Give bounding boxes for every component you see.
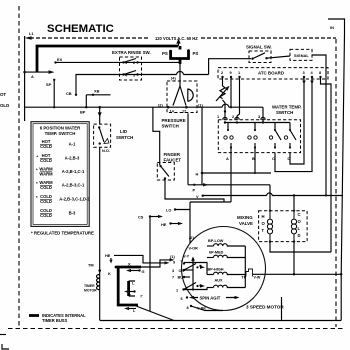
- svg-text:120 VOLTS A.C. 60 HZ: 120 VOLTS A.C. 60 HZ: [155, 36, 198, 41]
- svg-text:(1): (1): [198, 102, 203, 107]
- svg-text:K: K: [108, 271, 111, 276]
- svg-text:A-2,B-3: A-2,B-3: [65, 156, 80, 161]
- svg-text:9: 9: [173, 260, 175, 264]
- svg-text:3 SPEED MOTOR: 3 SPEED MOTOR: [246, 305, 284, 310]
- svg-text:MIXING: MIXING: [237, 215, 253, 220]
- svg-text:V: V: [196, 194, 199, 199]
- svg-text:K: K: [129, 293, 132, 298]
- svg-text:VALVE: VALVE: [239, 221, 253, 226]
- svg-text:PS: PS: [162, 51, 168, 56]
- svg-text:CS: CS: [138, 215, 144, 220]
- svg-text:LID: LID: [120, 129, 127, 134]
- svg-text:V-W: V-W: [254, 276, 261, 280]
- svg-text:A: A: [31, 74, 34, 79]
- svg-text:P: P: [193, 188, 196, 193]
- svg-text:AUX: AUX: [215, 279, 223, 283]
- svg-text:COLD: COLD: [40, 213, 52, 218]
- svg-text:SIGNAL: SIGNAL: [294, 53, 309, 58]
- svg-text:BU: BU: [178, 276, 184, 280]
- svg-text:H: H: [196, 172, 199, 177]
- svg-text:SIGNAL SW.: SIGNAL SW.: [246, 45, 272, 50]
- svg-text:TP: TP: [242, 276, 247, 280]
- svg-text:OLD: OLD: [0, 103, 9, 108]
- svg-text:L: L: [298, 226, 301, 231]
- svg-text:OT: OT: [0, 92, 6, 97]
- svg-text:1: 1: [176, 289, 178, 293]
- svg-text:A-2,B-3,C-1,D-1: A-2,B-3,C-1,D-1: [59, 197, 90, 202]
- svg-text:BP: BP: [80, 110, 86, 115]
- svg-text:A-2,B-1,C-1: A-2,B-1,C-1: [62, 169, 85, 174]
- svg-text:6 POSITION WATER: 6 POSITION WATER: [40, 126, 81, 131]
- svg-text:HE: HE: [161, 222, 167, 227]
- svg-text:(1): (1): [170, 254, 175, 259]
- svg-text:A-1: A-1: [69, 142, 76, 147]
- svg-text:COLD: COLD: [40, 199, 52, 204]
- svg-text:SCHEMATIC: SCHEMATIC: [47, 23, 114, 35]
- svg-text:B-3: B-3: [69, 211, 76, 216]
- svg-text:IN: IN: [330, 25, 334, 30]
- svg-text:COLD: COLD: [40, 158, 52, 163]
- svg-text:SWITCH: SWITCH: [162, 124, 179, 129]
- svg-text:WATER TEMP.: WATER TEMP.: [272, 105, 302, 110]
- svg-text:XB: XB: [94, 89, 100, 94]
- svg-text:6P-MED: 6P-MED: [209, 251, 224, 255]
- svg-text:ATC BOARD: ATC BOARD: [258, 71, 284, 76]
- svg-text:PS: PS: [193, 51, 199, 56]
- svg-text:COLD: COLD: [40, 144, 52, 149]
- svg-text:TM: TM: [88, 263, 94, 268]
- svg-text:SWITCH: SWITCH: [276, 110, 293, 115]
- svg-text:TIMER: TIMER: [84, 284, 95, 288]
- svg-text:(2): (2): [158, 102, 163, 107]
- svg-text:A-2,B-3,C-1: A-2,B-3,C-1: [62, 183, 85, 188]
- svg-text:V-OR: V-OR: [189, 247, 199, 251]
- svg-text:A: A: [226, 156, 229, 161]
- svg-text:7: 7: [172, 276, 174, 280]
- svg-text:MOTOR: MOTOR: [84, 289, 97, 293]
- svg-text:CB: CB: [66, 91, 72, 96]
- svg-text:T: T: [262, 228, 265, 233]
- svg-text:FINGER: FINGER: [164, 152, 181, 157]
- svg-text:BP-LOW: BP-LOW: [208, 239, 224, 243]
- svg-text:SWITCH: SWITCH: [116, 135, 133, 140]
- svg-text:V-Y: V-Y: [183, 255, 190, 259]
- svg-text:FAUCET: FAUCET: [164, 158, 182, 163]
- svg-text:G: G: [142, 269, 145, 274]
- svg-text:BP-HIGH: BP-HIGH: [208, 268, 224, 272]
- svg-text:EXTRA RINSE SW.: EXTRA RINSE SW.: [112, 50, 151, 55]
- svg-text:TIMER BUSS: TIMER BUSS: [42, 318, 68, 323]
- svg-text:SP: SP: [46, 82, 52, 87]
- svg-text:WARM: WARM: [39, 172, 53, 177]
- svg-text:HE: HE: [105, 253, 111, 258]
- svg-text:EX: EX: [57, 57, 63, 62]
- svg-text:COLD: COLD: [40, 185, 52, 190]
- svg-text:C: C: [298, 212, 301, 217]
- svg-text:D: D: [298, 233, 301, 238]
- svg-text:(4): (4): [171, 76, 176, 81]
- svg-text:PRESSURE: PRESSURE: [162, 118, 186, 123]
- svg-text:SPIN AGIT: SPIN AGIT: [200, 296, 221, 301]
- svg-text:N.O.: N.O.: [102, 148, 110, 153]
- svg-text:TEMP. SWITCH: TEMP. SWITCH: [45, 131, 76, 136]
- svg-text:LO: LO: [166, 208, 171, 213]
- svg-text:6: 6: [181, 297, 183, 301]
- svg-text:3: 3: [172, 269, 174, 273]
- svg-text:8: 8: [187, 306, 189, 310]
- svg-text:H: H: [262, 214, 265, 219]
- svg-text:* REGULATED TEMPERATURE: * REGULATED TEMPERATURE: [31, 231, 94, 236]
